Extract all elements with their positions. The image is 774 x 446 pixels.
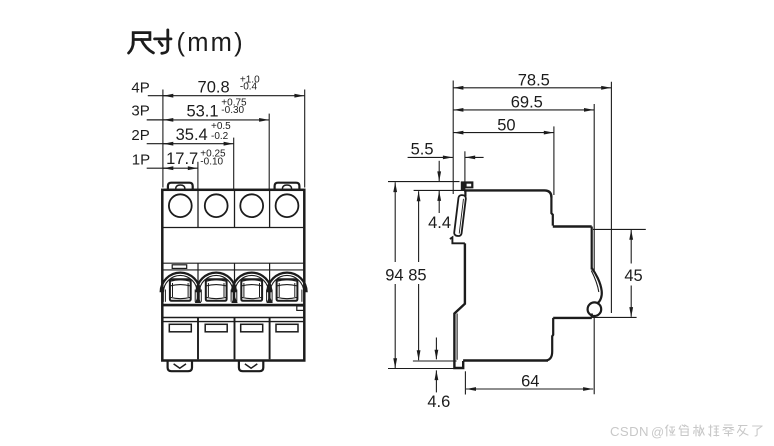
svg-text:35.4: 35.4 (176, 126, 208, 144)
side view: top edge with rounded front corner (464, 190, 551, 197)
dimension 17.7 +0.25/-0.10 (163, 167, 198, 169)
front view: arch side walls (162, 287, 164, 302)
svg-text:1P: 1P (132, 151, 150, 168)
svg-text:53.1: 53.1 (186, 103, 218, 121)
ext line 45 top (593, 228, 646, 230)
svg-text:-0.10: -0.10 (200, 156, 223, 167)
svg-text:45: 45 (624, 267, 642, 285)
side ext line rear (shared for 78.5/69.5/50/5.5) (452, 81, 454, 195)
front view: terminal screw circles (169, 194, 192, 217)
svg-text:-0.2: -0.2 (211, 131, 229, 142)
side ext line 78.5 right (610, 82, 612, 313)
svg-text:50: 50 (497, 116, 515, 134)
front view: band right end tab (297, 306, 304, 310)
side view: clip lever bottom hook (450, 237, 465, 243)
dimension 4.6 (435, 338, 437, 360)
side view: upper step (553, 225, 592, 227)
svg-text:78.5: 78.5 (518, 71, 550, 89)
front view: top mounting tab pole4 (275, 183, 300, 190)
dimension 69.5 (454, 109, 595, 111)
side view: bottom edge (463, 359, 548, 361)
svg-text:5.5: 5.5 (411, 141, 434, 159)
front view: band bottom lines (163, 317, 303, 319)
svg-text:(mm): (mm) (177, 29, 245, 57)
svg-text:CSDN: CSDN (610, 424, 649, 439)
dimension 45 (630, 230, 632, 264)
svg-text:64: 64 (521, 373, 539, 391)
dimension 64 (466, 388, 593, 390)
front view: pole divider lines (197, 191, 199, 228)
front view: toggle handles (170, 279, 191, 301)
front view: middle band thick line (162, 304, 304, 307)
side view: toggle handle profile (592, 268, 602, 303)
svg-text:@: @ (651, 425, 664, 440)
side view: lower step (553, 317, 592, 319)
dimension 35.4 +0.5/-0.2 (163, 143, 233, 145)
svg-text:85: 85 (408, 267, 426, 285)
extension line left (shared) (162, 90, 164, 188)
front view: breaker body outline (162, 190, 304, 361)
ext line 94 / 4.6 bottom (388, 368, 454, 370)
svg-text:70.8: 70.8 (198, 78, 230, 96)
front view: horizontal line under terminals (163, 227, 303, 229)
extension line 4P right (304, 90, 306, 188)
dimension 53.1 +0.75/-0.30 (163, 119, 269, 121)
svg-text:2P: 2P (131, 127, 149, 144)
svg-text:-0.30: -0.30 (221, 105, 244, 116)
side view: top rear hook (461, 181, 474, 191)
side view: DIN clip lever (454, 195, 466, 237)
side view: front face lower section (547, 318, 554, 361)
svg-text:4.6: 4.6 (427, 393, 450, 411)
dimension 78.5 (454, 87, 612, 89)
extension line 3P right (268, 114, 270, 189)
title character 寸 (hand-drawn) (155, 30, 171, 53)
front view: DIN foot pole3 (239, 361, 263, 371)
ext line 85 top (414, 189, 463, 191)
extension line 2P right (233, 138, 235, 189)
dimension 85 (418, 191, 420, 262)
side ext line 5.5 right (464, 151, 466, 183)
side view: rear edge segment below hook (464, 191, 466, 197)
svg-text:-0.4: -0.4 (240, 81, 258, 92)
watermark CJK glyph approximations (666, 425, 676, 436)
front view: lower label windows (169, 324, 191, 332)
dimension 50 (454, 132, 554, 134)
svg-text:4P: 4P (131, 80, 149, 97)
ext line 94 top (388, 181, 460, 183)
svg-text:17.7: 17.7 (166, 150, 198, 168)
title character 尺 (hand-drawn, CJK not available) (129, 33, 154, 53)
front view: top mounting tab pole1 (168, 183, 193, 190)
ext line 85 bottom / 4.6 top (413, 360, 457, 362)
dimension 4.4 (438, 161, 440, 181)
svg-text:3P: 3P (131, 102, 149, 119)
side view: front face mid section (591, 227, 593, 270)
dimension 94 (394, 182, 396, 262)
ext line 45 bottom (593, 316, 637, 318)
side ext line 69.5/64 right (593, 104, 595, 394)
side view: rear face and lower DIN jaw with foot (454, 243, 465, 368)
svg-text:69.5: 69.5 (511, 94, 543, 112)
dimension 70.8 +1.0/-0.4 (163, 95, 304, 97)
svg-text:4.4: 4.4 (428, 214, 451, 232)
front view: arch junction wedges (195, 296, 201, 303)
side view: front face upper section (551, 197, 552, 226)
extension line 1P right (197, 162, 199, 189)
svg-text:94: 94 (385, 267, 403, 285)
side ext line 50 right (553, 126, 555, 195)
front view: small label plate pole1 (172, 265, 187, 269)
front view: upper face lines (163, 262, 303, 264)
front view: toggle arches (crossing arcs) (161, 273, 200, 293)
ext line 64 left (464, 371, 466, 394)
front view: DIN foot pole1 (168, 361, 192, 371)
